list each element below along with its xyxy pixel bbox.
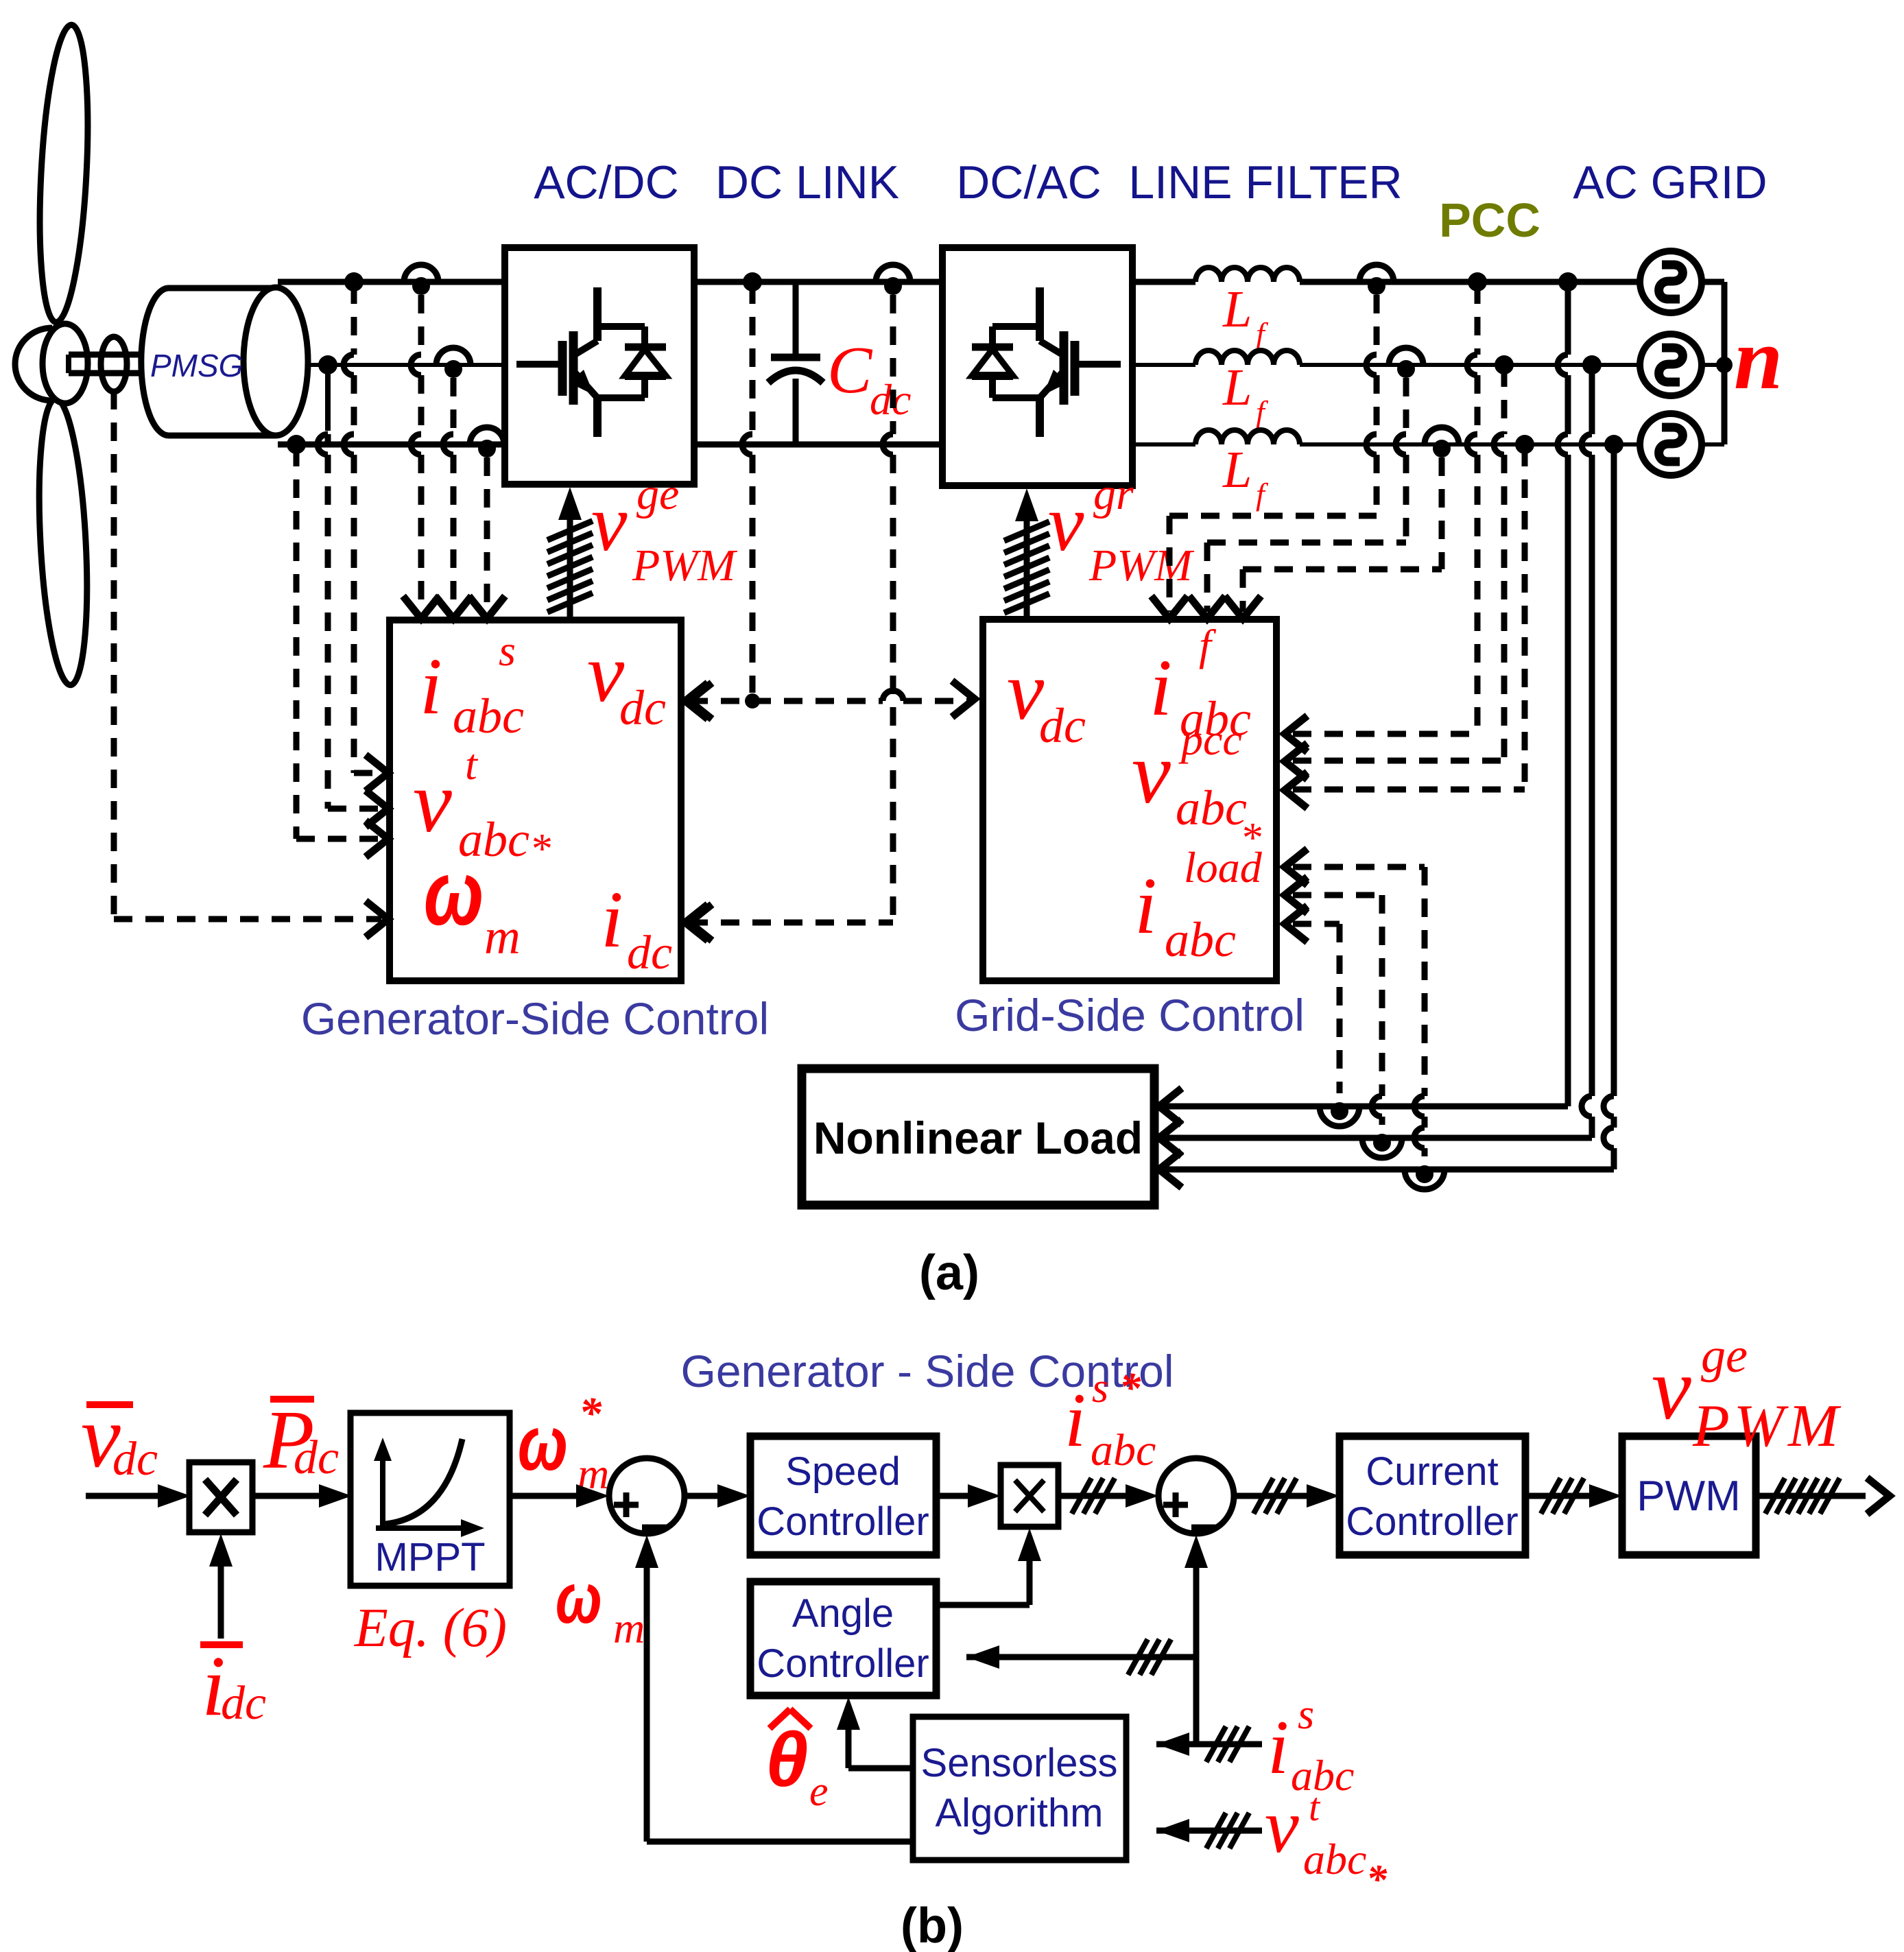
wire DC rail top: [694, 279, 942, 285]
svg-text:load: load: [1184, 843, 1263, 892]
wire load-b: [1159, 365, 1592, 1156]
arrow vdc into grid box: [0, 0, 1, 1]
label is-abc-star: [1064, 1365, 1156, 1475]
svg-text:Grid-Side Control: Grid-Side Control: [955, 990, 1305, 1040]
wire theta-e to Angle: [837, 1697, 913, 1768]
label Sensorless Algorithm: [921, 1741, 1118, 1835]
wire vt-abc into Sensorless: [1156, 1813, 1262, 1848]
wire Angle to X2: [936, 1528, 1041, 1605]
wire vt-c dashed to box: [296, 821, 388, 857]
inductor Lf row3: [1195, 430, 1300, 444]
inductor Lf row2: [1195, 350, 1300, 365]
current sensor iload-c: [1405, 1165, 1444, 1189]
svg-text:v: v: [591, 478, 628, 568]
svg-text:Controller: Controller: [757, 1641, 929, 1686]
svg-text:Nonlinear Load: Nonlinear Load: [813, 1112, 1143, 1163]
svg-text:L: L: [1222, 281, 1252, 338]
wire vpcc-a dashed: [1293, 285, 1477, 734]
block MPPT: [350, 1413, 510, 1586]
svg-text:*: *: [1119, 1365, 1141, 1412]
label Speed Controller: [757, 1449, 929, 1544]
svg-text:PWM: PWM: [632, 540, 738, 591]
label (b): [901, 1899, 964, 1952]
block Sensorless Algorithm: [913, 1717, 1126, 1860]
wire sum2 to Current Controller: [1234, 1484, 1340, 1508]
wire Speed to X2: [936, 1484, 1001, 1508]
label idc-bar (b): [200, 1639, 266, 1734]
svg-text:pcc: pcc: [1178, 715, 1242, 764]
wind turbine blade (front): [15, 328, 52, 401]
turbine hub: [43, 324, 88, 403]
label Angle Controller: [757, 1591, 929, 1686]
DC/AC IGBT: [1040, 287, 1121, 405]
wire X2 to sum2: [1058, 1484, 1158, 1508]
svg-text:dc: dc: [112, 1433, 158, 1486]
wire vt-a dashed down: [344, 285, 354, 773]
wire vt-a dashed to box: [354, 755, 388, 791]
wire row1 DC/AC to grid: [1132, 279, 1640, 285]
AC/DC IGBT: [516, 287, 597, 405]
current sensor is-b: [436, 348, 471, 378]
svg-text:m: m: [613, 1604, 645, 1652]
arrows i-f into grid box top: [1152, 596, 1261, 619]
AC source phase-c: [1640, 414, 1702, 475]
svg-text:AC GRID: AC GRID: [1573, 156, 1767, 209]
label omega-m (b): [556, 1558, 645, 1652]
capacitor Cdc: [768, 282, 823, 444]
generator PMSG body: [141, 287, 308, 436]
wire omega-m dashed: [114, 391, 388, 937]
wire vt-c dashed down: [294, 448, 300, 839]
svg-text:abc: abc: [453, 689, 524, 743]
summing junction 1: [609, 1458, 685, 1534]
node n junction: [1716, 357, 1733, 373]
hash X2 out: [1072, 1478, 1115, 1514]
wire row3 DC/AC to grid: [1132, 442, 1640, 447]
svg-text:s: s: [1298, 1691, 1314, 1738]
label theta-e: [765, 1709, 829, 1815]
wire vdc into multiplier: [86, 1484, 191, 1508]
wire vPWMgr arrow: [1015, 488, 1038, 619]
label vdc (gen): [587, 627, 666, 735]
wire iload-a dashed: [1293, 924, 1340, 1093]
svg-text:i: i: [1150, 643, 1172, 733]
svg-text:ω: ω: [518, 1401, 568, 1487]
wire is-abc into Sensorless: [1156, 1726, 1262, 1762]
current sensor idc: [876, 265, 910, 295]
node vdc tap: [743, 272, 762, 291]
svg-text:(a): (a): [919, 1246, 979, 1300]
svg-text:dc: dc: [294, 1431, 339, 1484]
label Pdc-bar (b): [263, 1394, 339, 1486]
label DC/AC: [956, 156, 1102, 209]
svg-text:i: i: [1268, 1705, 1289, 1790]
wire PWM output: [1756, 1478, 1890, 1514]
node load-c tap: [1604, 435, 1623, 454]
current sensor is-a: [404, 265, 438, 295]
svg-text:L: L: [1222, 359, 1252, 416]
wire iload-b dashed: [1293, 895, 1382, 1125]
label is-abc-s: [420, 626, 524, 743]
current sensor if-c: [1425, 427, 1459, 457]
svg-text:t: t: [1309, 1785, 1321, 1829]
label DC LINK: [715, 156, 899, 209]
svg-text:gr: gr: [1093, 469, 1134, 519]
svg-text:*: *: [579, 1388, 602, 1438]
current sensor if-b: [1389, 348, 1423, 378]
wire CC to PWM: [1525, 1484, 1622, 1508]
svg-text:Controller: Controller: [757, 1499, 929, 1544]
label PWM: [1637, 1473, 1741, 1520]
svg-text:dc: dc: [627, 927, 672, 979]
svg-text:abc: abc: [1303, 1835, 1366, 1883]
block Current Controller: [1340, 1436, 1525, 1555]
MPPT axes and curve: [374, 1438, 484, 1537]
AC/DC diode: [597, 326, 666, 437]
svg-text:ω: ω: [556, 1558, 602, 1638]
wire idc dashed down: [883, 295, 893, 923]
AC source phase-a: [1640, 251, 1702, 313]
label Nonlinear Load: [813, 1112, 1143, 1163]
svg-text:MPPT: MPPT: [374, 1535, 485, 1580]
arrows i-load into grid box: [1285, 849, 1307, 942]
wire phase-a PMSG to AC/DC: [278, 279, 505, 285]
DC/AC diode: [972, 326, 1040, 437]
wire X1 to MPPT: [252, 1484, 352, 1508]
label vt-abc: [413, 740, 551, 872]
block Angle Controller: [750, 1582, 936, 1695]
svg-text:L: L: [1222, 441, 1252, 499]
summing junction 2: [1158, 1458, 1234, 1534]
current sensor iload-b: [1362, 1134, 1402, 1158]
svg-text:v: v: [1652, 1340, 1691, 1438]
wire is-b dashed down: [436, 378, 472, 619]
label idc (gen): [601, 874, 672, 979]
svg-text:ge: ge: [636, 469, 679, 519]
block PWM: [1622, 1436, 1756, 1555]
wire vt-b dashed down: [318, 368, 328, 809]
svg-text:DC/AC: DC/AC: [956, 156, 1102, 209]
converter AC/DC box: [505, 248, 694, 484]
multiplier X1: [189, 1462, 252, 1532]
node pcc-a tap: [1468, 272, 1487, 291]
svg-text:*: *: [1366, 1857, 1388, 1902]
svg-text:dc: dc: [619, 680, 666, 735]
converter DC/AC box: [942, 248, 1132, 486]
label AC GRID: [1573, 156, 1767, 209]
label vPWMge (b): [1652, 1328, 1842, 1460]
label PCC: [1439, 193, 1540, 247]
current sensor iload-a: [1320, 1102, 1359, 1126]
svg-text:PWM: PWM: [1692, 1393, 1842, 1460]
arrows v-pcc into grid box: [1285, 716, 1307, 809]
svg-text:v: v: [413, 753, 452, 850]
wire omega-m feedback: [635, 1535, 913, 1842]
label iload-abc: [1134, 843, 1263, 967]
hash PWM out: [1765, 1478, 1840, 1514]
node pcc-c tap: [1515, 435, 1534, 454]
svg-text:Eq. (6): Eq. (6): [354, 1598, 507, 1658]
svg-text:PWM: PWM: [1637, 1473, 1741, 1520]
speed encoder ring: [101, 337, 127, 392]
current sensor is-c: [470, 427, 504, 457]
wire DC rail bottom: [694, 442, 942, 448]
hash vPWMgr: [1004, 522, 1049, 613]
wire row2 DC/AC to grid: [1132, 363, 1640, 367]
block Generator-Side Control: [390, 620, 681, 981]
label PMSG: [150, 348, 243, 383]
wire is-a dashed down: [403, 295, 440, 619]
label Lf row3: [1222, 441, 1269, 512]
node load-a tap: [1558, 272, 1578, 291]
svg-text:v: v: [1048, 478, 1084, 568]
svg-text:Sensorless: Sensorless: [921, 1741, 1118, 1785]
wire phase-c PMSG to AC/DC: [278, 442, 505, 448]
hash vPWMge: [547, 521, 593, 612]
wire load-c: [1159, 444, 1614, 1187]
svg-text:i: i: [1064, 1378, 1086, 1463]
svg-text:dc: dc: [1039, 698, 1086, 753]
label omega-m-star: [518, 1388, 609, 1498]
node pcc-b tap: [1495, 355, 1514, 374]
svg-text:PWM: PWM: [1088, 540, 1195, 591]
label is-abc (b): [1268, 1691, 1354, 1800]
svg-text:v: v: [1132, 724, 1171, 822]
inductor Lf row1: [1195, 267, 1300, 282]
svg-text:n: n: [1734, 310, 1783, 407]
node vt-c tap: [287, 435, 306, 454]
label (a): [919, 1246, 979, 1300]
wire sum1 to Speed Controller: [685, 1484, 750, 1508]
wire idc dashed horizontal: [689, 905, 893, 941]
label if-abc: [1150, 621, 1251, 746]
svg-text:abc: abc: [1176, 781, 1247, 835]
label vdc (grid): [1007, 645, 1086, 753]
block Speed Controller: [750, 1436, 936, 1555]
svg-text:DC LINK: DC LINK: [715, 156, 899, 209]
wire vdc dashed horizontal: [689, 681, 975, 719]
node vt-b tap: [318, 355, 337, 374]
label MPPT: [374, 1535, 485, 1580]
svg-text:abc: abc: [1291, 1751, 1354, 1800]
wire idc-bar up arrow: [209, 1534, 233, 1639]
svg-text:PCC: PCC: [1439, 193, 1540, 247]
label Cdc: [827, 333, 911, 424]
wire sum2 feedback down: [1185, 1535, 1208, 1744]
svg-text:Current: Current: [1366, 1449, 1498, 1494]
label vpcc-abc: [1132, 715, 1261, 861]
block Nonlinear Load: [802, 1069, 1154, 1205]
node vt-a tap: [344, 272, 364, 291]
svg-text:v: v: [1265, 1784, 1299, 1869]
wire into Angle Controller: [966, 1639, 1196, 1675]
svg-text:abc: abc: [1091, 1425, 1156, 1475]
wire iload-c dashed: [1293, 867, 1425, 1156]
svg-text:Angle: Angle: [792, 1591, 894, 1636]
svg-text:AC/DC: AC/DC: [534, 156, 679, 209]
current sensor if-a: [1359, 265, 1394, 295]
svg-text:s: s: [499, 626, 516, 675]
label AC/DC: [534, 156, 679, 209]
wind turbine blade (top): [34, 24, 95, 324]
svg-text:(b): (b): [901, 1899, 964, 1952]
label n: [1734, 310, 1783, 407]
svg-text:i: i: [1134, 861, 1157, 951]
label vdc-bar (b): [81, 1388, 158, 1486]
label Eq. (6): [354, 1598, 507, 1658]
label Current Controller: [1346, 1449, 1518, 1544]
arrows vdc idc into gen box: [685, 683, 708, 941]
label Generator-Side Control: [301, 993, 769, 1044]
label Grid-Side Control: [955, 990, 1305, 1040]
svg-text:Algorithm: Algorithm: [936, 1791, 1104, 1835]
svg-text:t: t: [465, 740, 479, 789]
svg-text:Controller: Controller: [1346, 1499, 1518, 1544]
svg-text:Generator-Side Control: Generator-Side Control: [301, 993, 769, 1044]
label vPWMgr: [1048, 469, 1195, 591]
AC source phase-b: [1640, 334, 1702, 396]
shaft: [69, 355, 143, 373]
wire if-b dashed: [1207, 378, 1406, 612]
hash sum2 out: [1254, 1478, 1297, 1514]
svg-text:*: *: [529, 826, 551, 872]
svg-text:e: e: [809, 1768, 829, 1815]
label vt-abc (b): [1265, 1784, 1388, 1902]
label omega-m (gen): [424, 842, 521, 964]
svg-text:i: i: [601, 874, 623, 964]
block Grid-Side Control: [983, 619, 1276, 981]
node vdc junction: [745, 693, 760, 709]
wire load-a: [1159, 282, 1568, 1124]
node load-b tap: [1582, 355, 1602, 374]
svg-text:s: s: [1092, 1365, 1108, 1412]
wire if-a dashed: [1169, 295, 1377, 612]
svg-text:m: m: [484, 909, 521, 964]
wire is-c dashed down: [469, 457, 505, 619]
wire vPWMge arrow: [558, 487, 582, 620]
multiplier X2: [1001, 1465, 1058, 1527]
wire if-c dashed: [1243, 457, 1442, 612]
svg-text:abc: abc: [1165, 912, 1236, 967]
svg-text:i: i: [420, 641, 442, 731]
label Lf row2: [1222, 359, 1269, 429]
wire grid bus: [1702, 282, 1724, 444]
svg-text:dc: dc: [221, 1677, 266, 1730]
svg-text:Speed: Speed: [785, 1449, 901, 1494]
svg-text:LINE FILTER: LINE FILTER: [1128, 156, 1402, 209]
wire vdc dashed down: [742, 285, 752, 693]
hash CC out: [1541, 1478, 1584, 1514]
wire vpcc-b dashed: [1293, 368, 1504, 761]
wind turbine blade (bottom): [33, 398, 93, 687]
label vPWMge: [591, 469, 738, 591]
label LINE FILTER: [1128, 156, 1402, 209]
svg-text:ω: ω: [424, 842, 484, 944]
svg-text:ge: ge: [1701, 1328, 1748, 1383]
svg-text:PMSG: PMSG: [150, 348, 243, 383]
label Generator - Side Control (b title): [680, 1346, 1174, 1396]
wire phase-b PMSG to AC/DC: [308, 363, 505, 367]
svg-text:C: C: [827, 333, 873, 407]
label Lf row1: [1222, 281, 1269, 351]
wire vpcc-c dashed: [1293, 448, 1525, 789]
wire vt-b dashed to box: [328, 791, 388, 827]
wire MPPT to sum1: [510, 1484, 609, 1508]
